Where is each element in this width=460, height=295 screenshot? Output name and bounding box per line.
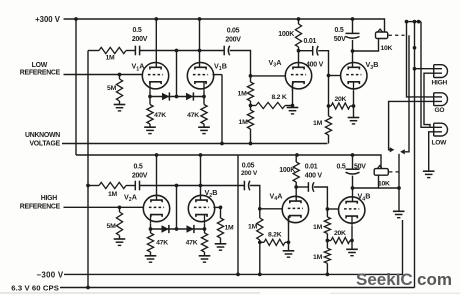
svg-text:0.5: 0.5 [134, 164, 143, 171]
svg-text:REFERENCE: REFERENCE [20, 204, 61, 211]
svg-text:1M: 1M [225, 225, 235, 232]
svg-text:LOW: LOW [32, 62, 48, 69]
svg-text:200 V: 200 V [241, 170, 258, 177]
svg-text:1M: 1M [239, 119, 249, 126]
svg-text:200V: 200V [132, 173, 148, 180]
svg-text:8.2K: 8.2K [268, 231, 282, 238]
svg-text:GO: GO [435, 107, 445, 114]
svg-text:0.01: 0.01 [304, 38, 317, 45]
svg-text:10K: 10K [381, 45, 393, 52]
svg-text:47K: 47K [154, 112, 166, 119]
svg-text:0.5: 0.5 [133, 27, 142, 34]
svg-text:0.5: 0.5 [337, 164, 346, 171]
svg-text:HIGH: HIGH [41, 195, 58, 202]
svg-text:20K: 20K [335, 96, 347, 103]
svg-text:0.01: 0.01 [305, 164, 318, 171]
svg-text:47K: 47K [156, 239, 168, 246]
svg-text:200V: 200V [225, 36, 241, 43]
svg-text:200V: 200V [132, 36, 148, 43]
svg-text:−300 V: −300 V [36, 270, 63, 279]
svg-text:5M: 5M [107, 85, 117, 92]
svg-text:1M: 1M [106, 55, 116, 62]
svg-text:400 V: 400 V [306, 61, 324, 68]
svg-text:UNKNOWN: UNKNOWN [25, 132, 60, 139]
svg-text:+300 V: +300 V [35, 15, 61, 24]
svg-text:1M: 1M [313, 120, 323, 127]
svg-text:1M: 1M [238, 91, 248, 98]
svg-text:1M: 1M [108, 191, 118, 198]
svg-text:50V: 50V [354, 164, 366, 171]
svg-text:400 V: 400 V [305, 172, 323, 179]
svg-text:0.05: 0.05 [227, 27, 240, 34]
svg-text:LOW: LOW [432, 140, 448, 147]
svg-text:VOLTAGE: VOLTAGE [29, 141, 60, 148]
svg-text:6.3 V 60 CPS: 6.3 V 60 CPS [11, 283, 59, 292]
svg-text:50V: 50V [334, 36, 346, 43]
svg-text:100K: 100K [279, 167, 295, 174]
svg-text:1M: 1M [248, 223, 258, 230]
svg-text:20K: 20K [334, 230, 346, 237]
svg-text:0.05: 0.05 [242, 162, 255, 169]
svg-text:SeekIC: SeekIC [356, 270, 413, 289]
svg-text:100K: 100K [278, 31, 294, 38]
svg-text:com: com [417, 270, 452, 289]
svg-text:8.2 K: 8.2 K [272, 94, 287, 101]
svg-text:HIGH: HIGH [432, 80, 448, 87]
svg-text:0.5: 0.5 [335, 27, 344, 34]
svg-text:47K: 47K [186, 239, 198, 246]
svg-text:47K: 47K [187, 112, 199, 119]
svg-text:10K: 10K [378, 180, 390, 187]
svg-text:1M: 1M [313, 254, 323, 261]
svg-text:REFERENCE: REFERENCE [20, 70, 61, 77]
svg-text:5M: 5M [107, 223, 117, 230]
svg-text:1M: 1M [313, 224, 323, 231]
